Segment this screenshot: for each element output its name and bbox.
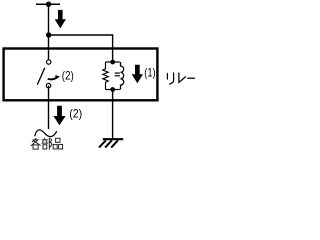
svg-text:(2): (2) <box>62 68 74 82</box>
svg-text:(2): (2) <box>69 106 82 120</box>
svg-text:(1): (1) <box>144 66 156 80</box>
